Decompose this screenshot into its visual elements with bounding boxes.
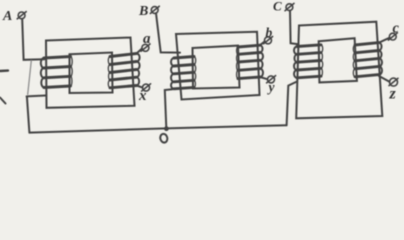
terminal y circle — [268, 76, 275, 83]
svg-text:B: B — [138, 4, 148, 19]
terminal A circle — [18, 12, 25, 19]
terminal c circle — [389, 33, 396, 40]
svg-text:x: x — [138, 88, 147, 104]
transformer T2 inner core window — [193, 46, 240, 89]
T2 primary winding inner loops — [194, 57, 196, 88]
transformer T3 inner core window — [319, 38, 357, 82]
wire T3 secondary top to terminal c — [379, 38, 389, 43]
T3 primary winding inner loops — [321, 45, 323, 76]
T2 primary winding turns — [174, 57, 194, 89]
T3 secondary winding turns — [355, 43, 379, 77]
transformer T1 outer core — [46, 38, 135, 108]
terminal B circle — [151, 7, 158, 14]
node O junction dot — [164, 126, 169, 131]
T2 primary winding outer loops — [171, 58, 174, 89]
transformer T2 outer core — [176, 32, 260, 100]
T2 secondary winding inner loops — [237, 47, 238, 79]
wire T2 secondary top to terminal b — [260, 42, 265, 46]
T1 secondary winding inner loops — [108, 57, 110, 88]
wire T3 primary bottom to bus — [287, 82, 297, 126]
terminal C circle — [286, 4, 293, 11]
T1 primary winding inner loops — [71, 57, 73, 87]
T2 secondary winding turns — [238, 45, 260, 78]
svg-text:y: y — [267, 80, 276, 95]
T1 secondary winding turns — [110, 54, 137, 88]
wire C down to T3 primary top — [290, 11, 299, 45]
terminal a circle — [142, 44, 149, 51]
T3 secondary winding outer loops — [379, 43, 382, 75]
wire T3 secondary bottom to terminal z — [379, 76, 390, 82]
wire T1 secondary bottom to terminal x — [137, 86, 143, 88]
wire T1 secondary top to terminal a — [137, 49, 142, 54]
wire T2 secondary bottom to terminal y — [260, 77, 267, 79]
wire T1 primary bottom to drop — [27, 95, 46, 98]
T3 primary winding turns — [297, 45, 321, 78]
wire A down to T1 primary top — [22, 19, 44, 60]
T1 primary winding outer loops — [41, 58, 44, 88]
svg-text:b: b — [266, 25, 273, 40]
wire faint vertical T1 left — [28, 61, 32, 95]
T1 primary winding turns — [44, 57, 71, 88]
wire T2 primary bottom to node O — [165, 89, 173, 128]
terminal b circle — [265, 37, 272, 44]
T3 secondary winding inner loops — [353, 45, 355, 77]
T2 secondary winding outer loops — [260, 45, 263, 77]
svg-text:z: z — [389, 86, 397, 103]
terminal x circle — [143, 84, 150, 91]
T3 primary winding outer loops — [294, 47, 297, 78]
node O label — [159, 133, 168, 143]
terminal z circle — [390, 78, 398, 86]
wire bottom bus O — [29, 125, 286, 132]
svg-text:c: c — [393, 21, 400, 37]
page edge mark left upper — [0, 69, 8, 72]
page edge mark left lower — [0, 98, 6, 104]
transformer T1 inner core window — [70, 53, 113, 94]
wire B down to T2 primary top — [156, 13, 180, 53]
wire drop to bottom bus — [27, 97, 30, 133]
T1 secondary winding outer loops — [137, 54, 140, 86]
transformer T3 outer core — [296, 22, 382, 119]
svg-text:a: a — [143, 31, 151, 47]
svg-text:C: C — [273, 0, 282, 14]
svg-text:A: A — [2, 9, 12, 24]
